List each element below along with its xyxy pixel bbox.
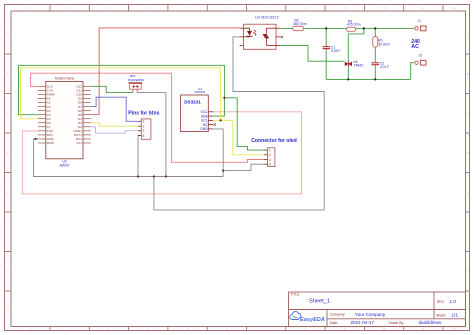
svg-text:2021-04-17: 2021-04-17 (351, 320, 375, 325)
connector: Connector for oled (251, 138, 297, 167)
wire: J2 connection (green) (411, 63, 414, 80)
wire: AC top rail (green) opto pin6 to J1 (280, 27, 414, 29)
wire: SCL branch (yellow) to oled pin 2 (221, 120, 264, 154)
svg-text:DS3231: DS3231 (184, 100, 201, 105)
svg-text:Drawn By:: Drawn By: (389, 321, 405, 325)
wire: AC bottom rail (green) (326, 78, 411, 80)
junction top rail / Rh branch (374, 27, 376, 29)
DS3231 U1 (181, 87, 216, 132)
wire: 5V net (pink) Nano 5.5V - DS3231 VCC (22, 112, 301, 194)
wire: SDA net (green) Nano A4 - DS3231 SDA (19, 65, 225, 116)
svg-text:RAW: RAW (47, 141, 54, 145)
svg-text:C: C (7, 112, 9, 115)
svg-text:AC: AC (411, 44, 419, 50)
junction on GND bus at buzzer drop (165, 175, 167, 177)
gnd arrow at nano GND pin (35, 138, 38, 140)
Arduino Nano U2 (38, 77, 91, 168)
svg-text:J2: J2 (419, 54, 423, 58)
wire: D5 net (red) from Nano D5 to optocoupler pin1 (91, 28, 240, 115)
svg-text:470 Ohm: 470 Ohm (347, 23, 361, 27)
wire: triac gate from opto pin4 (green) (280, 45, 344, 61)
svg-text:4: 4 (269, 163, 271, 167)
wire: triac branch (green) (348, 28, 364, 60)
wire: SCL net (yellow) Nano A5 - DS3231 SCL (21, 68, 221, 121)
junction bottom rail / C2 (374, 78, 376, 80)
svg-text:1/1: 1/1 (452, 313, 459, 318)
svg-text:Pins for btns: Pins for btns (128, 110, 159, 116)
junction dot SCL branch (220, 119, 222, 121)
wire: D13 net (red) from Nano D13 to oled connector pin 3 (31, 73, 264, 162)
svg-text:U3 MOC3022: U3 MOC3022 (255, 16, 279, 20)
triac inside opto (263, 34, 268, 38)
wire: D2 to btns pin3 (purple) (91, 127, 138, 133)
svg-text:H: H (467, 308, 469, 311)
svg-text:Connector for oled: Connector for oled (251, 138, 297, 144)
junction on GND bus at btns pin4 drop (137, 175, 139, 177)
svg-text:3: 3 (269, 158, 271, 162)
wire: D3 to btns pin2 (yellow) (91, 123, 138, 126)
svg-text:TRIAC: TRIAC (354, 64, 365, 68)
svg-text:daniildrisov: daniildrisov (419, 320, 443, 325)
svg-text:NANO: NANO (60, 164, 70, 168)
svg-text:G: G (467, 270, 469, 273)
wire: btns pin4 to bus (gray) (138, 136, 141, 177)
connector J1 (415, 19, 426, 31)
wire: SDA branch (green) to oled pin 1 (224, 98, 263, 150)
svg-text:1: 1 (269, 148, 271, 152)
svg-text:39 Ohm: 39 Ohm (378, 42, 390, 46)
svg-text:360 Ohm: 360 Ohm (293, 22, 307, 26)
wire: gray loop opto pin2 to bus (154, 37, 324, 210)
svg-text:Sheet:: Sheet: (436, 313, 446, 317)
svg-text:4: 4 (143, 134, 145, 138)
resistor R3 470 Ohm (346, 19, 361, 31)
svg-text:GND: GND (200, 127, 208, 131)
wire: GND bus (gray) (34, 139, 224, 177)
wire: D12 to buzzer (green) (91, 86, 133, 92)
NC cross on opto pin5 (281, 36, 283, 38)
svg-text:H: H (7, 308, 9, 311)
resistor Rh 39 Ohm (373, 36, 390, 47)
svg-text:C: C (467, 112, 469, 115)
buzzer BG1 (128, 74, 144, 92)
capacitor C1 0.05F (323, 45, 341, 53)
svg-text:0.05 F: 0.05 F (331, 49, 340, 53)
wire: C1 drop (green) (325, 28, 327, 44)
junction bottom rail / triac (347, 78, 349, 80)
svg-text:J1: J1 (418, 19, 422, 23)
connector: Pins for btns (128, 110, 159, 139)
wire: DS3231 GND down to bus (gray) (213, 129, 223, 177)
wire: Nano GND stub to bus (gray) (34, 138, 38, 140)
triac U4 (345, 60, 365, 67)
svg-text:BUZZERNS: BUZZERNS (128, 78, 144, 82)
svg-text:G: G (7, 270, 9, 273)
resistor R2 360 Ohm (293, 19, 307, 31)
svg-text:Your Company: Your Company (355, 312, 386, 317)
svg-text:2: 2 (269, 153, 271, 157)
junction dot SDA branch (223, 97, 225, 99)
svg-text:DS3231: DS3231 (195, 90, 206, 94)
title block (289, 292, 466, 327)
junction on GND bus at opto-loop drop (153, 175, 155, 177)
junction top rail / triac branch (363, 27, 365, 29)
NC cross on DS3231 NC pin (214, 124, 216, 126)
EasyEDA logo (290, 312, 325, 324)
svg-text:0.01 F: 0.01 F (380, 65, 389, 69)
connector J2 (415, 54, 426, 66)
svg-text:Company:: Company: (330, 313, 346, 317)
svg-text:1.0: 1.0 (450, 299, 457, 304)
svg-text:1: 1 (143, 120, 145, 124)
svg-text:Sheet_1: Sheet_1 (309, 298, 330, 304)
svg-text:2: 2 (143, 125, 145, 129)
junction on DS3231 GND wire at oled pin4 branch (222, 170, 224, 172)
junction top rail / C1 (325, 27, 327, 29)
wire: Rh/C2 branch (green) (374, 28, 376, 36)
svg-text:D: D (467, 152, 469, 155)
svg-text:REV:: REV: (437, 300, 445, 304)
wire: branch to oled pin4 (gray) (223, 164, 264, 170)
optocoupler U3 MOC3022 (240, 16, 283, 50)
svg-text:D: D (7, 152, 9, 155)
svg-text:TX1: TX1 (76, 141, 82, 145)
svg-text:Arduino Nano: Arduino Nano (55, 77, 75, 81)
wire: D7 to btns pin1 (blue) (91, 97, 138, 121)
svg-text:3: 3 (143, 129, 145, 133)
svg-text:Date:: Date: (330, 321, 338, 325)
capacitor C2 0.01F (372, 61, 390, 69)
svg-text:TITLE:: TITLE: (291, 293, 301, 297)
wire: buzzer right leg to bus (gray) (137, 93, 166, 177)
svg-text:EasyEDA: EasyEDA (300, 317, 325, 323)
LED inside opto (247, 31, 252, 36)
